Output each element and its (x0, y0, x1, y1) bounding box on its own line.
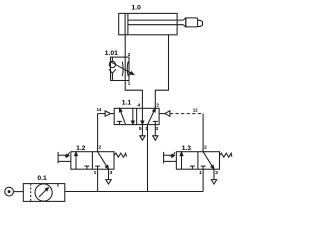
svg-text:1.2: 1.2 (76, 145, 86, 152)
valve 1.1 left square blocked port 5 (119, 121, 121, 124)
svg-text:12: 12 (193, 108, 198, 113)
svg-text:2: 2 (99, 145, 102, 151)
valve 1.3 right square path 2 to 3 (203, 152, 212, 166)
svg-text:5: 5 (139, 126, 142, 132)
valve 1.1 left pilot 14 (98, 113, 106, 115)
valve 1.2 right square path 2 to 3 (98, 152, 107, 166)
valve 1.1 divider (136, 108, 138, 124)
valve 1.2 left square flow arrow (75, 156, 77, 170)
valve 1.3 divider (197, 152, 199, 170)
valve 1.1 body (114, 108, 159, 124)
svg-text:1: 1 (199, 170, 202, 176)
valve 1.1 exhaust port 5 (141, 125, 143, 136)
cylinder 1.0 body (119, 13, 177, 34)
svg-text:3: 3 (215, 170, 218, 176)
valve 1.3 manual actuator (163, 152, 165, 164)
valve 1.1 right square path 1 to 2 (148, 111, 154, 124)
svg-text:4: 4 (137, 102, 140, 108)
valve 1.2 body (71, 152, 114, 170)
svg-text:1: 1 (128, 81, 131, 87)
wire cylinder right port to valve 1.1 port 2 (155, 35, 168, 109)
svg-text:2: 2 (128, 52, 131, 58)
valve 1.01 check valve branch (111, 57, 113, 61)
svg-text:3: 3 (110, 170, 113, 176)
svg-text:3: 3 (156, 126, 159, 132)
wire valve 1.01 port 1 to valve 1.1 port 4 (125, 81, 142, 109)
valve 1.2 detent click arrow (68, 152, 70, 155)
svg-text:1.0: 1.0 (132, 5, 142, 12)
service unit gauge arrow (39, 190, 46, 197)
service unit gauge (35, 184, 52, 201)
valve 1.3 body (176, 152, 219, 170)
valve 1.1 pilot line 12 dashed (170, 113, 203, 115)
cylinder 1.0 piston rod (128, 19, 183, 21)
valve 1.3 exhaust port 3 (213, 169, 215, 179)
valve 1.2 left square blocked port (86, 166, 88, 169)
valve 1.1 right square path 4 to 5 (141, 108, 143, 121)
valve 1.1 left square path 2 to 3 (132, 108, 134, 121)
valve 1.01 adjustment arrow (110, 61, 131, 73)
valve 1.01 throttle arcs (121, 62, 124, 77)
cylinder 1.0 piston (124, 13, 126, 34)
flow control valve 1.01 body (111, 57, 130, 80)
wire valve 1.1 port 1 to supply line (147, 125, 149, 192)
valve 1.3 return spring (220, 153, 232, 157)
svg-text:0.1: 0.1 (37, 175, 47, 182)
wire valve 1.3 port 1 to supply (202, 169, 204, 191)
cylinder 1.0 rod coupling (183, 18, 186, 27)
valve 1.1 right square blocked port 3 (154, 121, 156, 124)
svg-text:1.3: 1.3 (182, 145, 192, 152)
service unit body (23, 184, 65, 202)
valve 1.3 detent click arrow (173, 152, 175, 155)
svg-text:1.01: 1.01 (105, 50, 118, 57)
valve 1.1 left square path 1 to 4 (121, 111, 126, 124)
service unit port tick (57, 184, 59, 187)
valve 1.2 exhaust port 3 (108, 169, 110, 179)
wire pilot 14 to valve 1.2 port 2 (97, 114, 99, 152)
valve 1.3 left square blocked port (191, 166, 193, 169)
valve 1.2 divider (91, 152, 93, 170)
svg-text:1.1: 1.1 (122, 99, 132, 106)
wire valve 1.2 port 1 to supply (97, 169, 99, 191)
svg-text:14: 14 (97, 107, 102, 112)
valve 1.2 manual actuator (57, 152, 59, 164)
wire pilot 12 to valve 1.3 port 2 (202, 114, 204, 152)
air supply source circle (5, 187, 14, 196)
wire cylinder left port to valve 1.01 port 2 (124, 35, 126, 57)
valve 1.3 right square blocked port 1 (202, 166, 204, 169)
valve 1.3 left square flow arrow (181, 156, 183, 170)
svg-text:2: 2 (204, 145, 207, 151)
svg-text:1: 1 (94, 170, 97, 176)
valve 1.2 return spring (114, 153, 126, 157)
valve 1.2 right square blocked port 1 (97, 166, 99, 169)
svg-text:2: 2 (156, 102, 159, 108)
valve 1.01 main line (124, 57, 126, 80)
wire source to service unit (14, 191, 24, 193)
supply line (65, 191, 203, 193)
valve 1.1 right pilot 12 (159, 113, 165, 115)
service unit dashed separator (30, 184, 32, 202)
valve 1.1 exhaust port 3 (154, 125, 156, 136)
